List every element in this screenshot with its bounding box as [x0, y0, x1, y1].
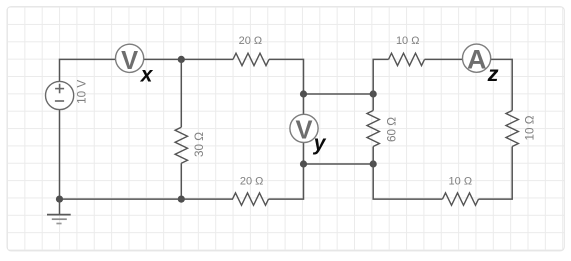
node: bottom bus left dot — [300, 160, 307, 167]
svg-text:20 Ω: 20 Ω — [239, 35, 263, 47]
svg-text:A: A — [467, 45, 487, 75]
voltmeter Vx — [116, 44, 144, 75]
resistor R 20ohm bottom (zigzag) — [233, 193, 269, 205]
resistor R 60ohm vertical (zigzag) — [367, 111, 379, 147]
svg-text:20 Ω: 20 Ω — [240, 175, 264, 187]
resistor R 10ohm right vertical (zigzag) — [506, 111, 518, 147]
wire: bottom bus down to bottom rail corner — [269, 164, 304, 199]
svg-text:10 Ω: 10 Ω — [449, 175, 473, 187]
node: top bus left dot — [300, 90, 307, 97]
resistor R 30ohm vertical (zigzag) — [175, 127, 187, 163]
wire: 10ohm to ammeter — [425, 58, 463, 60]
node: bottom bus right dot — [370, 160, 377, 167]
wire: top bus down to Vy — [303, 94, 305, 114]
wire: top 20ohm to mid-left corner, down to top bus — [269, 59, 304, 94]
svg-text:60 Ω: 60 Ω — [386, 117, 399, 142]
wire: top bus right down to 60ohm — [372, 94, 374, 111]
wire: Vy bottom to bottom bus — [303, 143, 305, 165]
svg-text:V: V — [121, 47, 138, 75]
node: junction dot top of 30ohm branch — [178, 56, 185, 63]
wire: source bottom down to ground node — [59, 110, 61, 200]
wire: 30ohm bottom to bottom rail — [180, 163, 182, 199]
wire: bottom bus — [304, 163, 374, 165]
svg-text:x: x — [140, 64, 154, 87]
svg-text:10 V: 10 V — [76, 80, 89, 104]
svg-text:10 Ω: 10 Ω — [524, 115, 537, 140]
node: ground junction dot — [56, 196, 63, 203]
wire: 30ohm branch top — [180, 59, 182, 127]
node: top bus right dot — [370, 90, 377, 97]
svg-text:V: V — [295, 117, 312, 145]
wire: 60ohm bottom to bottom bus — [372, 147, 374, 165]
ammeter Az — [463, 44, 491, 74]
wire: top bus — [304, 93, 374, 95]
voltage source V1 — [46, 81, 74, 109]
svg-text:30 Ω: 30 Ω — [193, 132, 206, 157]
resistor R 10ohm top right (zigzag) — [389, 53, 425, 65]
wire: bottom rail left section — [60, 198, 234, 200]
wire: Vx right to top 20ohm resistor — [144, 58, 233, 60]
resistor R 10ohm bottom right (zigzag) — [443, 193, 479, 205]
node: bottom rail dot at 30ohm — [178, 196, 185, 203]
wire: top-left rail from source corner to Vx — [60, 59, 116, 81]
ground — [47, 199, 71, 223]
wire: ammeter right to right rail corner down — [491, 59, 512, 110]
wire: mid-right vertical from top bus up to top rail, to 10ohm — [373, 59, 388, 94]
svg-text:y: y — [313, 132, 327, 155]
svg-text:10 Ω: 10 Ω — [396, 35, 420, 47]
wire: right rail bottom down to bottom rail, left to bottom 10ohm — [479, 147, 513, 200]
wire: bottom 10ohm left to mid-right vertical up to bottom bus — [373, 164, 442, 199]
svg-text:z: z — [487, 63, 499, 86]
voltmeter Vy — [290, 114, 318, 144]
resistor R 20ohm top (zigzag) — [233, 53, 269, 65]
